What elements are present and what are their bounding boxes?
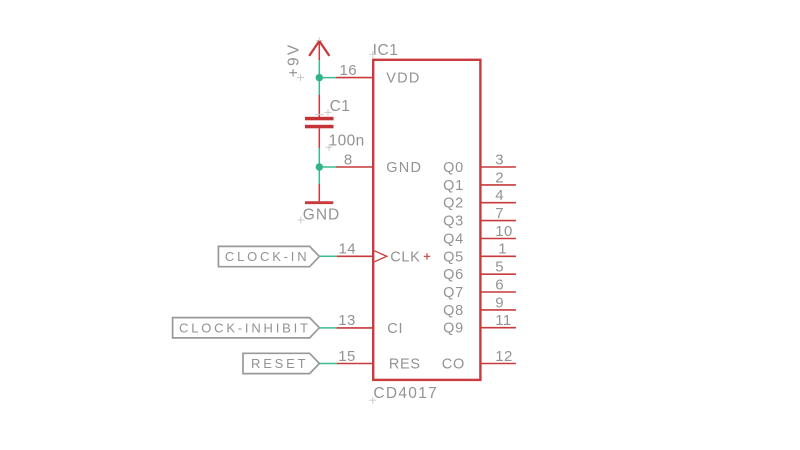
svg-text:Q9: Q9 — [443, 321, 464, 337]
svg-text:3: 3 — [495, 151, 504, 168]
pin 9 Q8 — [480, 309, 516, 311]
wire junction to pin 16 — [319, 77, 337, 79]
svg-text:GND: GND — [303, 206, 340, 223]
svg-text:10: 10 — [495, 223, 513, 240]
right pins Q0..Q9 — [0, 0, 1, 1]
svg-text:13: 13 — [338, 312, 356, 329]
svg-text:VDD: VDD — [386, 71, 420, 87]
svg-text:RESET: RESET — [251, 356, 308, 371]
svg-text:4: 4 — [495, 187, 504, 204]
origin cross at GND label — [297, 217, 304, 224]
svg-text:Q3: Q3 — [443, 214, 464, 230]
wire CLOCK-IN to pin 14 — [319, 255, 337, 257]
pin 5 Q6 — [480, 273, 516, 275]
svg-text:CLOCK-INHIBIT: CLOCK-INHIBIT — [179, 320, 311, 335]
svg-text:15: 15 — [338, 348, 356, 365]
svg-text:CD4017: CD4017 — [373, 385, 438, 402]
pin 13 CI — [336, 327, 373, 329]
origin cross at CD4017 label — [369, 397, 376, 404]
red plus at CLK — [424, 253, 430, 259]
pin 2 Q1 — [480, 184, 516, 186]
pin 16 VDD — [336, 77, 373, 79]
origin cross at IC1 label — [369, 51, 376, 58]
svg-text:2: 2 — [495, 169, 504, 186]
svg-text:CLK: CLK — [390, 249, 420, 265]
origin cross at +9V label — [297, 74, 304, 81]
svg-text:Q6: Q6 — [443, 267, 464, 283]
IC1 body — [373, 60, 480, 380]
capacitor C1 — [305, 95, 334, 149]
svg-text:Q2: Q2 — [443, 196, 464, 212]
svg-text:Q8: Q8 — [443, 303, 464, 319]
power +9V symbol arrow — [309, 41, 329, 60]
pin 10 Q4 — [480, 238, 516, 240]
svg-text:Q1: Q1 — [443, 178, 464, 194]
origin cross at C1 label — [325, 109, 332, 116]
svg-text:6: 6 — [495, 276, 504, 293]
svg-text:Q7: Q7 — [443, 285, 464, 301]
svg-text:+9V: +9V — [285, 43, 302, 78]
wire capacitor to junction B — [318, 148, 320, 167]
wire +9V to junction — [318, 60, 320, 77]
pin 15 RES — [336, 363, 373, 365]
svg-text:CLOCK-IN: CLOCK-IN — [225, 249, 310, 264]
svg-text:1: 1 — [498, 241, 507, 258]
svg-text:100n: 100n — [329, 133, 365, 150]
pin 12 CO — [480, 363, 516, 365]
svg-text:7: 7 — [495, 205, 504, 222]
pin 11 Q9 — [480, 327, 516, 329]
svg-text:14: 14 — [339, 241, 357, 258]
net flag CLOCK-INHIBIT — [173, 318, 320, 338]
wire CLOCK-INHIBIT to pin 13 — [319, 327, 337, 329]
svg-text:9: 9 — [495, 294, 504, 311]
junction dot A — [316, 74, 323, 81]
pin 8 GND — [336, 166, 373, 168]
svg-text:C1: C1 — [330, 98, 351, 115]
svg-text:GND: GND — [386, 160, 422, 176]
pin 6 Q7 — [480, 291, 516, 293]
svg-text:CO: CO — [442, 357, 465, 373]
pin 3 Q0 — [480, 166, 516, 168]
svg-text:Q0: Q0 — [443, 160, 464, 176]
net flag RESET — [243, 353, 319, 373]
origin cross at 100n label — [326, 144, 333, 151]
clock triangle symbol — [374, 251, 386, 262]
pin 1 Q5 — [480, 255, 516, 257]
svg-text:16: 16 — [340, 62, 358, 79]
svg-text:IC1: IC1 — [373, 42, 399, 59]
svg-text:CI: CI — [387, 321, 403, 337]
wire junction B to pin 8 — [319, 166, 337, 168]
net flag CLOCK-IN — [218, 246, 319, 266]
wire junction B down to ground — [318, 167, 320, 185]
wire RESET to pin 15 — [319, 363, 337, 365]
svg-text:12: 12 — [495, 348, 513, 365]
svg-text:11: 11 — [495, 312, 511, 329]
pin 14 CLK — [336, 255, 373, 257]
svg-text:Q4: Q4 — [443, 232, 464, 248]
origin cross at capacitor — [315, 114, 324, 116]
svg-text:5: 5 — [495, 259, 504, 276]
svg-text:Q5: Q5 — [443, 249, 464, 265]
svg-text:RES: RES — [389, 357, 421, 373]
pin 7 Q3 — [480, 220, 516, 222]
wire junction down to capacitor — [318, 78, 320, 96]
svg-text:8: 8 — [344, 151, 353, 168]
ground symbol — [305, 184, 333, 203]
junction dot B — [316, 163, 323, 170]
origin cross at +9V arrow tip — [316, 37, 323, 44]
pin 4 Q2 — [480, 202, 516, 204]
